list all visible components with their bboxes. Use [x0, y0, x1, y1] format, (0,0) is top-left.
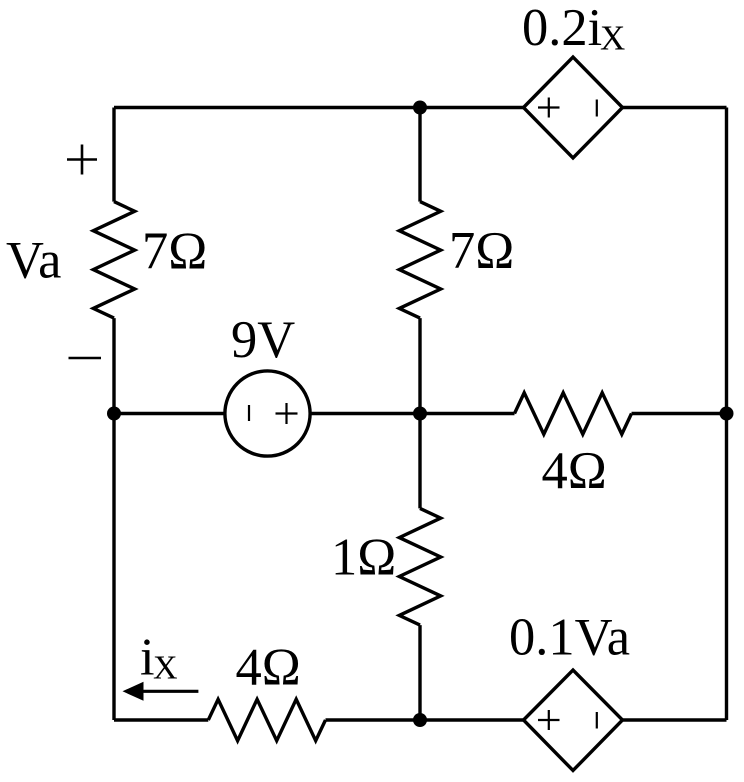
svg-text:0.2i: 0.2i [522, 0, 602, 57]
svg-text:X: X [153, 650, 178, 687]
U2 minus terminal bar [596, 712, 598, 729]
wire middle-right (center node to 4ohm resistor R4) [420, 412, 515, 415]
resistor R5 4ohm horizontal bottom [208, 699, 325, 740]
svg-text:Va: Va [6, 232, 61, 290]
svg-text:0.1Va: 0.1Va [509, 608, 630, 666]
node center junction [413, 407, 427, 421]
U2 plus sign [538, 710, 560, 730]
svg-text:4Ω: 4Ω [236, 639, 301, 697]
polarity plus label (Va) [67, 145, 97, 175]
wire left upper (top-left corner to resistor R1) [112, 108, 115, 202]
wire top-left horizontal (top-left corner to top node) [114, 106, 420, 109]
V1 minus terminal bar [248, 405, 250, 421]
node bottom-middle junction [413, 713, 427, 727]
wire middle vertical (R2 bottom to center node) [418, 318, 421, 413]
wire middle vertical lower (center node to R3) [418, 414, 421, 509]
wire bottom middle (R5 to bottom-middle node) [326, 718, 421, 721]
current arrow ix shaft [141, 690, 198, 693]
polarity minus label (Va) [69, 357, 102, 360]
wire left middle (R1 bottom to left-middle node) [112, 318, 115, 413]
svg-text:7Ω: 7Ω [142, 223, 207, 281]
wire bottom-right (diamond to bottom-right corner) [623, 718, 727, 721]
svg-text:4Ω: 4Ω [542, 442, 607, 500]
wire bottom-left (bottom-left corner to resistor R5) [114, 718, 208, 721]
wire (R4 to right-middle node) [632, 412, 727, 415]
U1 minus terminal bar [596, 100, 598, 117]
wire middle-left (left-middle node to 9V source) [114, 412, 225, 415]
wire bottom (bottom-middle node to 0.1Va diamond) [420, 718, 524, 721]
resistor R4 4ohm horizontal middle-right [515, 393, 632, 434]
wire left lower (left-middle node to bottom-left corner) [112, 414, 115, 721]
node right-middle junction [720, 407, 734, 421]
resistor R2 7ohm middle vertical [399, 202, 440, 319]
wire right vertical [725, 108, 728, 721]
wire middle vertical upper (top node to R2) [418, 108, 421, 202]
svg-text:X: X [600, 19, 625, 58]
svg-text:9V: 9V [231, 311, 295, 369]
U1 plus sign [538, 98, 560, 118]
wire top-right (diamond right terminal to top-right corner) [623, 106, 727, 109]
node top-middle junction [413, 101, 427, 115]
dependent source U1 0.2ix diamond [524, 57, 623, 158]
resistor R3 1ohm vertical [399, 508, 440, 625]
wire top (top node to 0.2ix diamond left terminal) [420, 106, 524, 109]
svg-text:1Ω: 1Ω [331, 528, 396, 586]
svg-text:7Ω: 7Ω [449, 222, 514, 280]
node left-middle junction [107, 407, 121, 421]
wire middle (9V source to center node) [310, 412, 420, 415]
V1 plus sign [276, 403, 298, 424]
dependent source U2 0.1Va diamond [524, 670, 623, 771]
resistor R1 7ohm left vertical [93, 202, 134, 319]
wire (R3 bottom to bottom-middle node) [418, 625, 421, 720]
voltage source V1 9V circle [225, 371, 310, 456]
current arrow ix (pointing left) [123, 682, 144, 701]
